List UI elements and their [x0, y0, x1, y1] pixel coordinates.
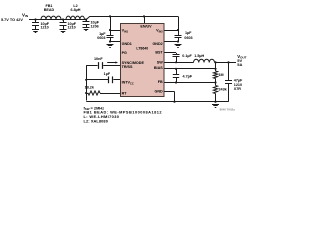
- svg-text:VIN: VIN: [22, 12, 29, 18]
- svg-text:EN/UV: EN/UV: [140, 25, 152, 29]
- svg-text:0.1µF: 0.1µF: [182, 54, 192, 58]
- svg-text:1.5µH: 1.5µH: [194, 54, 204, 58]
- svg-text:X7R: X7R: [234, 87, 242, 91]
- svg-text:10nF: 10nF: [94, 57, 103, 61]
- svg-text:1210: 1210: [68, 26, 76, 30]
- svg-text:GND2: GND2: [152, 42, 162, 46]
- svg-text:GND: GND: [154, 90, 163, 94]
- svg-text:18.2k: 18.2k: [85, 85, 95, 89]
- svg-text:GND1: GND1: [122, 42, 132, 46]
- svg-text:0603: 0603: [184, 36, 192, 40]
- svg-text:1M: 1M: [219, 73, 224, 77]
- svg-text:SW: SW: [157, 60, 163, 64]
- svg-text:1µF: 1µF: [104, 72, 111, 76]
- svg-text:LT8640: LT8640: [136, 46, 148, 50]
- svg-text:BST: BST: [155, 51, 163, 55]
- svg-text:5.7V TO 42V: 5.7V TO 42V: [1, 18, 23, 22]
- svg-text:6.8µH: 6.8µH: [71, 8, 81, 12]
- svg-text:1µF: 1µF: [185, 31, 192, 35]
- svg-text:1210: 1210: [234, 83, 242, 87]
- svg-text:RT: RT: [122, 92, 128, 96]
- svg-text:PG: PG: [122, 51, 127, 55]
- svg-text:4.7pF: 4.7pF: [183, 74, 193, 78]
- svg-text:0603: 0603: [97, 36, 105, 40]
- svg-text:L2: XAL8080: L2: XAL8080: [84, 118, 108, 123]
- svg-text:BEAD: BEAD: [44, 8, 55, 12]
- svg-text:47µF: 47µF: [234, 78, 243, 82]
- svg-text:8640 TA02a: 8640 TA02a: [220, 108, 236, 112]
- svg-text:BIAS: BIAS: [154, 66, 163, 70]
- svg-text:TR/SS: TR/SS: [122, 65, 133, 69]
- svg-text:1210: 1210: [41, 26, 49, 30]
- svg-text:5A: 5A: [237, 62, 242, 67]
- svg-text:FB: FB: [158, 80, 163, 84]
- svg-text:243k: 243k: [219, 87, 228, 91]
- svg-text:1206: 1206: [91, 24, 99, 28]
